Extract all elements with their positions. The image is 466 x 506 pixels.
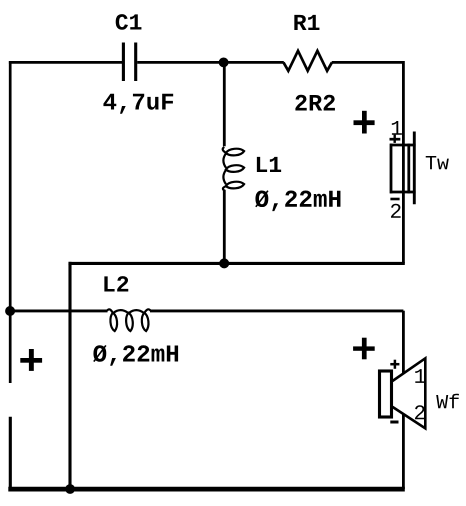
wire: top rail from R1 to right corner, then down to tweeter and bottom corner (332, 62, 404, 263)
wire: from L2 right corner down to woofer pin 1 (402, 311, 405, 374)
polarity - mark at woofer pin 2 (390, 421, 398, 424)
capacitor C1 (123, 43, 135, 82)
pin 2 of tweeter (391, 204, 401, 218)
node A: junction dot C1/R1/L1 (219, 58, 229, 68)
wire: left vertical rail (input + side), x=10, from top rail down to terminal gap (9, 61, 12, 383)
inductor L1 (wire from node A down, loops, wire to node B) (223, 62, 244, 263)
tweeter Tw body (390, 132, 416, 205)
wire: bottom horizontal rail (8, 487, 405, 492)
node C: junction dot on left rail at L2 branch (5, 306, 15, 316)
pin 2 of woofer (415, 405, 425, 419)
polarity + at input terminals (20, 349, 42, 371)
polarity + mark at tweeter pin 1 (390, 135, 401, 143)
value 0,22mH for L2 (93, 345, 178, 366)
resistor R1 (284, 51, 332, 71)
wire: left rail lower segment below terminal gap (9, 417, 12, 489)
polarity + for tweeter (354, 111, 375, 134)
polarity + for woofer (353, 338, 375, 360)
label Tw (426, 156, 449, 169)
inductor L2 (horizontal wire with loops) (9, 309, 404, 331)
value 0,22mH for L1 (255, 190, 340, 211)
wire: top horizontal rail segment from left rail to C1 left plate (9, 61, 122, 64)
wire: vertical return x=70 from mid rail down to bottom rail (68, 263, 71, 489)
label C1 (116, 14, 142, 30)
label Wf (436, 394, 459, 408)
label L2 (104, 276, 128, 291)
value 2R2 (295, 95, 335, 111)
wire: from woofer pin 2 down to bottom rail (402, 414, 405, 489)
pin 1 of tweeter (392, 121, 402, 135)
polarity + mark at woofer pin 1 (390, 360, 399, 369)
node D: junction dot bottom rail / x=70 return (65, 484, 75, 494)
woofer Wf body (driver rectangle and cone) (380, 358, 426, 428)
wire: mid horizontal rail (tweeter return) from x=70 to right corner (70, 262, 405, 264)
polarity - mark at tweeter pin 2 (390, 198, 399, 201)
label R1 (294, 15, 319, 30)
pin 1 of woofer (415, 369, 425, 383)
value 4,7uF (103, 94, 173, 114)
label L1 (257, 157, 281, 172)
wire: top rail from C1 to R1 (137, 61, 284, 64)
node B: junction dot at L1 bottom / mid rail (219, 258, 229, 268)
